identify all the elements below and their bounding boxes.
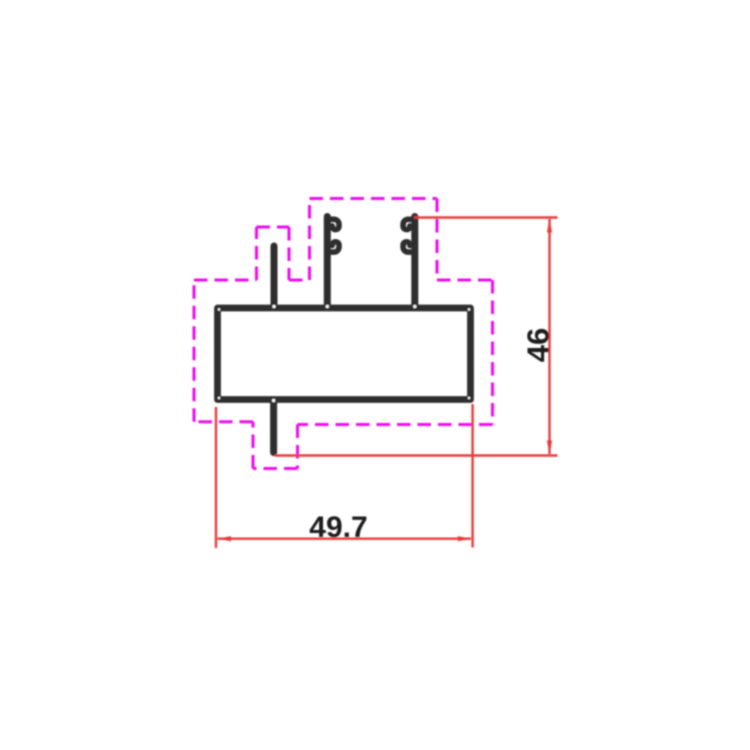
rect corner bevel specks (218, 308, 220, 310)
boundary bottom-left horizontal (194, 420, 253, 423)
svg-text:49.7: 49.7 (309, 511, 367, 544)
top pin (271, 246, 278, 306)
pin bump left vertical (255, 227, 258, 280)
aluminium profile body (dark outline) (218, 246, 471, 453)
clip top hook (328, 219, 340, 229)
dashed clearance boundary (magenta stepped outline) (194, 199, 493, 469)
pin bump right vertical (288, 227, 291, 280)
mid horizontal between bumps (289, 279, 310, 282)
boundary bottom-right horizontal (298, 423, 493, 426)
boundary right vertical (491, 280, 494, 425)
arrow right (49.7) (458, 536, 472, 541)
dimension arrowheads (217, 219, 552, 542)
tab notch left vertical (252, 422, 255, 469)
extension line bottom (from tab) (275, 454, 558, 456)
clip bottom hook (328, 242, 340, 252)
horizontal dimension line 49.7 (218, 538, 472, 540)
bottom tab (270, 402, 277, 453)
boundary mid-right horizontal (437, 279, 493, 282)
extension line left (from rect) (215, 407, 217, 548)
tab notch right vertical (296, 425, 299, 469)
arrow down (46 bottom) (547, 441, 552, 455)
left C-clip (327, 217, 339, 307)
profile main rectangle (218, 308, 471, 400)
extension line top (from right clip) (414, 216, 558, 218)
clip stem (324, 217, 331, 307)
clip bump left vertical (308, 199, 311, 281)
dimension lines (red) (216, 218, 558, 549)
junction highlight dots (218, 305, 470, 402)
arrow left (49.7) (217, 536, 231, 541)
boundary left vertical (193, 280, 196, 422)
pin bump top horizontal (257, 226, 290, 229)
right C-clip (mirrored) (403, 217, 415, 307)
extension line right (from rect) (471, 404, 473, 548)
boundary mid-left horizontal (194, 279, 257, 282)
arrow up (46 top) (547, 219, 552, 233)
svg-text:46: 46 (521, 328, 556, 362)
tab notch bottom horizontal (253, 467, 298, 470)
clip bump right vertical (436, 199, 439, 281)
vertical dimension line 46 (548, 219, 550, 454)
clip bump top horizontal (310, 197, 438, 200)
